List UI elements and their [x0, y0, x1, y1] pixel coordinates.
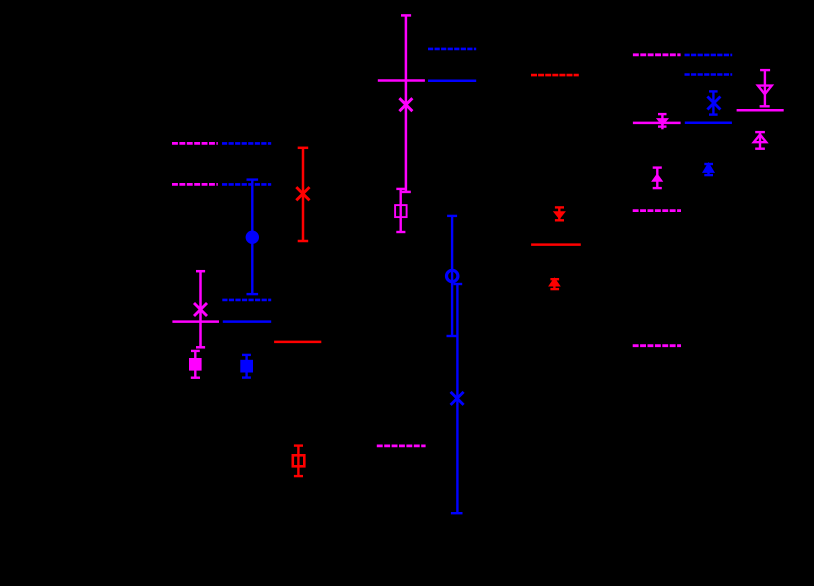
magenta X measurement with error bar [194, 271, 207, 347]
magenta open-square measurement with error bar [395, 189, 407, 232]
magenta dashed line bin3 lower [633, 344, 681, 347]
red filled triangle-up measurement with error bar [548, 277, 561, 289]
red X measurement with error bar [296, 148, 309, 241]
magenta large X measurement with long error bar and bin line [378, 15, 425, 192]
magenta solid line (right) [737, 109, 784, 112]
magenta dashed line bin1 lower [172, 183, 218, 186]
red filled triangle-down measurement with error bar [553, 207, 566, 220]
blue dashed line bin1 lower [222, 183, 271, 186]
magenta open triangle-up measurement with error bar [754, 132, 766, 149]
magenta dashed line bin2 lower [377, 444, 426, 447]
blue filled triangle-up measurement with error bar [702, 162, 715, 175]
blue dashed line bin2 upper [428, 48, 476, 51]
magenta filled triangle-up measurement with error bar [651, 168, 663, 189]
red dashed line bin2 [531, 74, 579, 77]
magenta open triangle-down measurement with error bar [758, 70, 772, 106]
blue dashed line bin3 top [685, 54, 733, 57]
red solid line bin2 [531, 243, 581, 246]
blue solid line bin2 [428, 79, 476, 82]
magenta dashed line bin3 middle [633, 209, 681, 212]
magenta filled triangle-down measurement with error bar and bin line [633, 114, 681, 129]
blue X measurement with long error bar [451, 284, 464, 513]
magenta filled-square measurement with error bar [189, 351, 202, 378]
blue filled-square measurement with error bar [240, 355, 253, 378]
blue dashed line bin3 second [685, 73, 733, 76]
blue dashed line bin1 middle [222, 299, 271, 302]
magenta dashed line bin1 upper [172, 142, 218, 145]
blue solid line bin3 [685, 122, 732, 125]
blue open-circle measurement with error bar [447, 216, 458, 336]
red open-square measurement with error bar [293, 446, 305, 477]
blue dashed line bin1 upper [222, 142, 271, 145]
blue X measurement with error bar (top right) [707, 91, 720, 114]
red solid line bin1 [274, 341, 321, 344]
blue filled-circle measurement with error bar [246, 180, 259, 295]
magenta dashed line bin3 top [633, 53, 681, 56]
blue solid line bin1 [223, 320, 271, 323]
magenta solid line bin1 [172, 320, 219, 323]
